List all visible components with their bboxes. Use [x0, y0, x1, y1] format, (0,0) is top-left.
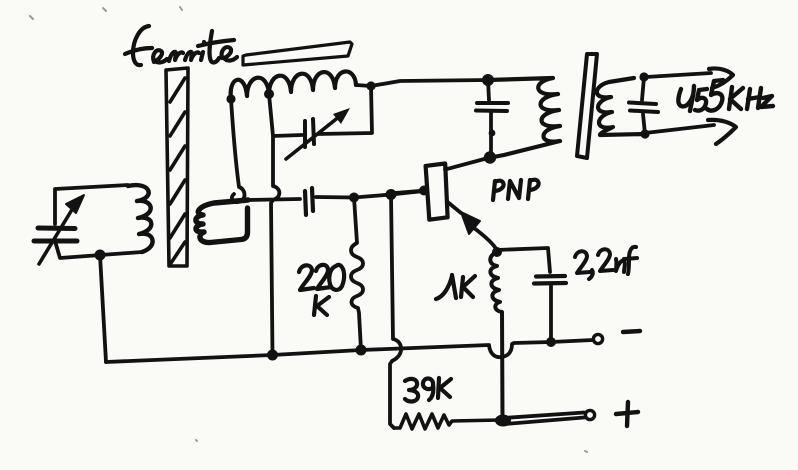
coupling capacitor C3 plates: [305, 188, 313, 215]
trimmer capacitor C2 loop right side: [318, 86, 372, 134]
label 220: [299, 265, 344, 290]
label plus sign: [616, 402, 638, 426]
output arrow lower: [645, 125, 714, 133]
node bottom rail 220K: [356, 345, 367, 356]
node osc coil tap: [264, 89, 274, 99]
node base wire 220K: [349, 193, 359, 203]
variable capacitor C1 plates: [34, 228, 77, 241]
wire coupling coil to coupling cap: [248, 199, 300, 200]
node secondary top: [639, 72, 648, 81]
node antenna bottom: [95, 250, 106, 261]
transistor base lead: [395, 191, 425, 194]
transistor Q1 base bar: [426, 164, 448, 220]
oscillator coil L3 left lead with hook: [231, 99, 245, 202]
node bottom rail osc tap: [267, 350, 278, 361]
IF core bar: [577, 54, 597, 158]
node IF top: [482, 74, 494, 86]
IF secondary capacitor: [642, 77, 644, 100]
resistor 39K: [394, 414, 500, 429]
label PNP: [493, 180, 539, 200]
trimmer arrow: [286, 116, 340, 159]
variable capacitor C1 arrow: [39, 203, 76, 264]
label 39K: [405, 378, 451, 401]
wire top of left tank: [55, 185, 128, 224]
wire to minus terminal: [551, 340, 593, 342]
scan specks: [30, 7, 587, 452]
IF primary capacitor: [488, 80, 489, 100]
trimmer capacitor C2 left wire: [273, 135, 302, 136]
node plus junction: [495, 415, 511, 427]
terminal minus circle: [593, 334, 602, 343]
node secondary bottom: [640, 129, 649, 138]
label K (220K): [314, 296, 329, 315]
node osc right: [366, 81, 375, 90]
resistor 1K: [490, 252, 502, 418]
node collector: [484, 151, 496, 163]
transistor collector lead: [445, 158, 488, 170]
wire bottom rail with hop under 1K: [361, 342, 551, 357]
node minus rail cap: [546, 337, 556, 347]
label ferrite: [125, 26, 237, 65]
resistor 220K: [351, 198, 363, 351]
ferrite rod horizontal (top sliver): [243, 42, 352, 65]
trimmer capacitor C2 plates: [305, 119, 314, 147]
wire bottom rail left: [106, 355, 272, 362]
node base junction blob: [419, 186, 429, 196]
label 2,2nF: [575, 247, 637, 279]
wire bottom of left tank: [55, 241, 142, 258]
wire base: [316, 191, 424, 198]
output arrow upper: [646, 73, 711, 77]
wire osc tap down with hop over base wire, to bottom rail: [269, 94, 279, 355]
label minus sign: [623, 331, 640, 332]
node osc coil left end: [226, 94, 235, 103]
wire bottom rail mid: [273, 350, 362, 355]
wire top rail osc to IF: [371, 80, 488, 86]
coupling coil L2: [196, 200, 248, 243]
label 1K: [436, 275, 475, 299]
IF secondary winding: [597, 78, 645, 135]
wire osc right end: [356, 85, 371, 86]
IF primary winding: [488, 78, 560, 158]
capacitor 2.2nF branch: [497, 248, 550, 272]
node base wire divider: [386, 189, 397, 200]
label 455 KHz: [678, 80, 773, 111]
transistor emitter lead with PNP arrow: [448, 202, 461, 213]
antenna coil L1: [128, 185, 153, 252]
emitter node: [492, 247, 502, 257]
ferrite rod vertical (hatched): [166, 68, 188, 266]
oscillator coil L3 humps: [231, 71, 356, 99]
terminal plus circle: [585, 410, 594, 419]
wire plus junction to terminal (double stroke): [503, 413, 584, 419]
blob on IF cap lead: [489, 130, 496, 137]
wire antenna node down to bottom rail: [100, 255, 106, 362]
wire divider node down with hop over rail, to 39K: [390, 195, 401, 429]
